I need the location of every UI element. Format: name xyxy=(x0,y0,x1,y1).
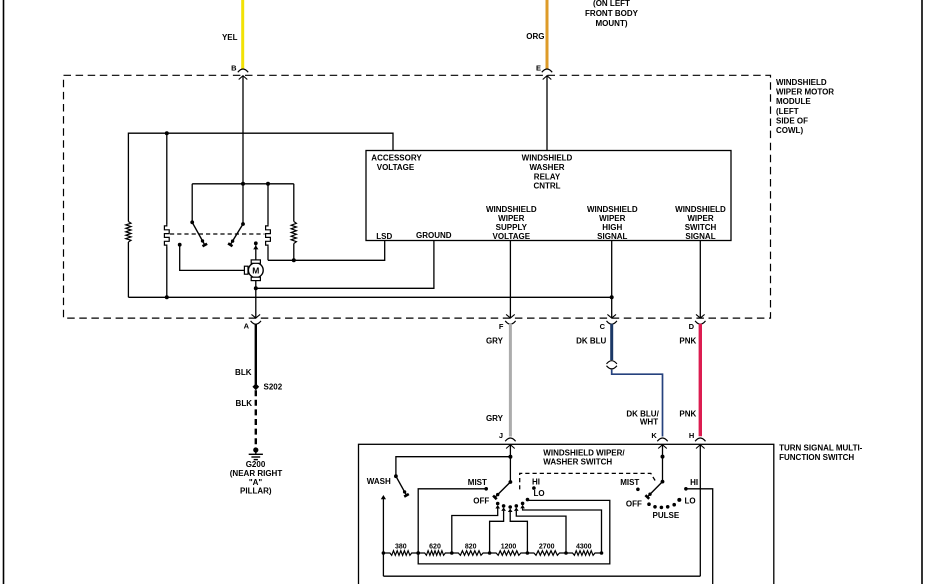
wire to wash switch xyxy=(396,457,511,477)
winding left xyxy=(166,133,168,224)
wire SWITCH SIGNAL pin to terminal D xyxy=(699,241,701,318)
svg-text:OFF: OFF xyxy=(626,499,642,508)
mechanical link dashed to pulse switch xyxy=(520,473,657,489)
svg-text:COWL): COWL) xyxy=(776,126,803,135)
wash switch arm xyxy=(396,476,407,495)
node chain junction xyxy=(450,551,454,555)
svg-text:WIPER: WIPER xyxy=(687,214,713,223)
svg-text:GROUND: GROUND xyxy=(416,231,452,240)
contact MIST xyxy=(484,487,488,491)
svg-text:SIGNAL: SIGNAL xyxy=(685,232,715,241)
contact MIST xyxy=(636,488,640,492)
node chain junction xyxy=(526,551,530,555)
svg-text:WASHER SWITCH: WASHER SWITCH xyxy=(543,458,612,467)
wire J into box xyxy=(509,445,511,482)
svg-text:MIST: MIST xyxy=(468,478,487,487)
svg-text:PILLAR): PILLAR) xyxy=(240,486,272,495)
svg-text:4300: 4300 xyxy=(576,543,592,550)
svg-text:CNTRL: CNTRL xyxy=(533,182,560,191)
wire accessory-voltage rail to relay box xyxy=(128,133,393,221)
svg-text:2700: 2700 xyxy=(539,543,555,550)
svg-text:WINDSHIELD: WINDSHIELD xyxy=(587,205,638,214)
pulse switch pivot xyxy=(661,480,665,484)
svg-text:J: J xyxy=(499,431,503,440)
svg-text:HI: HI xyxy=(690,478,698,487)
wire H down to bottom bus xyxy=(699,445,701,576)
svg-text:S202: S202 xyxy=(264,383,283,392)
svg-text:WIPER: WIPER xyxy=(599,214,625,223)
svg-text:TURN SIGNAL MULTI-: TURN SIGNAL MULTI- xyxy=(779,443,863,452)
contact to motor brush 2 (arrow) xyxy=(254,241,258,245)
wiper switch arm (OFF) xyxy=(495,482,511,497)
windshield wiper motor module dashed outline xyxy=(64,75,771,318)
wash contact arrow xyxy=(381,495,386,499)
svg-text:M: M xyxy=(252,266,259,276)
ground G200 xyxy=(253,447,258,452)
motor M1 xyxy=(248,263,263,278)
wire delay5 to chain end xyxy=(523,508,602,553)
terminal A connector xyxy=(252,314,261,318)
left page border xyxy=(3,0,5,584)
wire SUPPLY VOLTAGE pin to terminal F xyxy=(509,241,511,318)
splice S202 xyxy=(252,383,259,390)
svg-text:MODULE: MODULE xyxy=(776,97,811,106)
node J branch xyxy=(508,455,512,459)
terminal F connector xyxy=(506,314,515,318)
contact LO xyxy=(677,498,681,502)
svg-text:YEL: YEL xyxy=(222,33,238,42)
wire K into box xyxy=(662,445,664,482)
wire from B down to park switch pivot xyxy=(242,76,244,224)
contact HI xyxy=(684,487,688,491)
pulse switch arm (OFF) xyxy=(647,482,662,497)
contact to motor brush 1 xyxy=(178,243,182,247)
svg-text:LO: LO xyxy=(534,489,545,498)
svg-text:820: 820 xyxy=(465,543,477,550)
node chain junction xyxy=(416,551,420,555)
svg-text:WINDSHIELD: WINDSHIELD xyxy=(522,154,573,163)
wire delay3 to 1200/2700 junction xyxy=(510,512,527,553)
pulse position contacts xyxy=(647,502,651,506)
node chain junction xyxy=(600,551,604,555)
wire from E down to relay box xyxy=(546,76,548,151)
bottom bus wire H to wash/chain xyxy=(383,575,700,577)
svg-text:OFF: OFF xyxy=(473,496,489,505)
winding right xyxy=(267,184,269,224)
svg-text:C: C xyxy=(600,322,606,331)
svg-text:GRY: GRY xyxy=(486,337,504,346)
svg-text:PNK: PNK xyxy=(679,337,696,346)
inner supply rail xyxy=(192,183,294,185)
svg-text:FUNCTION SWITCH: FUNCTION SWITCH xyxy=(779,453,854,462)
svg-text:PULSE: PULSE xyxy=(653,511,680,520)
node winding-right top on rail xyxy=(266,182,270,186)
node winding-left / bus xyxy=(165,295,169,299)
svg-text:WINDSHIELD: WINDSHIELD xyxy=(486,205,537,214)
svg-text:K: K xyxy=(651,431,657,440)
svg-text:H: H xyxy=(689,431,694,440)
svg-text:WIPER: WIPER xyxy=(498,214,524,223)
wire to LSD pin xyxy=(268,241,385,261)
wiper relay box xyxy=(366,151,731,241)
svg-text:SUPPLY: SUPPLY xyxy=(496,223,528,232)
terminal C connector xyxy=(607,314,616,318)
turn signal multifunction switch box xyxy=(359,444,774,584)
wire delay4 to 2700/4300 junction xyxy=(516,511,566,553)
contact LO xyxy=(526,498,530,502)
svg-text:F: F xyxy=(499,322,504,331)
svg-text:LSD: LSD xyxy=(376,232,392,241)
svg-text:HIGH: HIGH xyxy=(602,223,622,232)
node bus / high signal wire xyxy=(610,295,614,299)
svg-text:VOLTAGE: VOLTAGE xyxy=(377,163,415,172)
wire BLK dashed S202 to G200 xyxy=(255,390,257,446)
svg-text:380: 380 xyxy=(395,543,407,550)
svg-text:WINDSHIELD: WINDSHIELD xyxy=(776,78,827,87)
svg-text:(LEFT: (LEFT xyxy=(776,107,799,116)
svg-text:WHT: WHT xyxy=(640,418,658,427)
svg-text:HI: HI xyxy=(532,477,540,486)
wire wash contact down to resistor chain & bottom bus xyxy=(382,499,384,576)
svg-text:1200: 1200 xyxy=(501,543,517,550)
svg-text:E: E xyxy=(536,64,541,73)
svg-text:(ON LEFT: (ON LEFT xyxy=(593,0,630,8)
node rail/winding junction xyxy=(165,131,169,135)
svg-text:VOLTAGE: VOLTAGE xyxy=(493,232,531,241)
resistor 4300 xyxy=(566,551,602,556)
svg-text:PNK: PNK xyxy=(679,409,696,418)
svg-text:WASHER: WASHER xyxy=(529,163,564,172)
resistor right xyxy=(293,184,295,222)
svg-text:(NEAR RIGHT: (NEAR RIGHT xyxy=(230,469,283,478)
svg-text:620: 620 xyxy=(429,543,441,550)
in-line connector on blue wire xyxy=(607,361,617,364)
contact HI xyxy=(532,486,536,490)
svg-text:WASH: WASH xyxy=(367,477,391,486)
wire YEL feed (fuse side) xyxy=(241,0,244,69)
svg-text:G200: G200 xyxy=(246,460,266,469)
svg-text:SIGNAL: SIGNAL xyxy=(597,232,627,241)
wire BLK from A to S202 xyxy=(255,324,257,387)
svg-text:MOUNT): MOUNT) xyxy=(596,19,628,28)
wire HI contact right and down xyxy=(686,489,713,584)
svg-text:GRY: GRY xyxy=(486,414,504,423)
node chain junction xyxy=(564,551,568,555)
node chain junction xyxy=(382,551,386,555)
svg-text:D: D xyxy=(689,322,695,331)
svg-text:ACCESSORY: ACCESSORY xyxy=(371,154,422,163)
wire delay1 to 620/820 junction xyxy=(452,509,498,554)
svg-text:BLK: BLK xyxy=(236,399,253,408)
svg-text:WINDSHIELD: WINDSHIELD xyxy=(675,205,726,214)
node resistor-right / LSD wire xyxy=(292,258,296,262)
wire resistor left bottom xyxy=(127,242,129,297)
node K xyxy=(661,455,665,459)
resistor 380 xyxy=(383,551,418,556)
park switch left arm xyxy=(192,222,205,245)
resistor 620 xyxy=(418,551,452,556)
svg-text:DK BLU: DK BLU xyxy=(576,337,606,346)
terminal E connector xyxy=(542,69,552,72)
wire high-signal bus xyxy=(128,296,611,298)
svg-text:WIPER MOTOR: WIPER MOTOR xyxy=(776,88,834,97)
resistor left (wiper motor) xyxy=(126,222,131,243)
terminal K connector xyxy=(657,438,667,441)
svg-text:RELAY: RELAY xyxy=(534,173,561,182)
mechanical link dashed xyxy=(170,233,265,235)
park switch right pivot xyxy=(241,222,245,226)
node B-wire on rail xyxy=(241,182,245,186)
svg-text:SWITCH: SWITCH xyxy=(685,223,717,232)
svg-text:SIDE OF: SIDE OF xyxy=(776,116,808,125)
svg-text:WINDSHIELD WIPER/: WINDSHIELD WIPER/ xyxy=(543,448,625,457)
delay contacts with arrows xyxy=(496,502,500,506)
svg-text:A: A xyxy=(244,321,250,330)
svg-text:ORG: ORG xyxy=(526,32,544,41)
terminal H connector xyxy=(695,438,705,441)
park switch right arm xyxy=(230,224,243,245)
node chain junction xyxy=(488,551,492,555)
node chain start dot xyxy=(416,551,420,555)
wiper switch pivot xyxy=(509,480,513,484)
wire MIST to chain start / LO loop xyxy=(418,489,610,564)
svg-text:FRONT BODY: FRONT BODY xyxy=(585,9,639,18)
wire ORG feed (on left front body mount) xyxy=(546,0,549,69)
wire delay2 to 820/1200 junction xyxy=(490,511,504,553)
wire DK BLU from C xyxy=(610,324,613,360)
svg-text:MIST: MIST xyxy=(620,478,639,487)
svg-text:B: B xyxy=(231,64,237,73)
svg-text:LO: LO xyxy=(685,497,696,506)
terminal D connector xyxy=(696,314,705,318)
wash switch pivot xyxy=(394,474,398,478)
svg-text:BLK: BLK xyxy=(235,368,252,377)
node motor/ground xyxy=(254,286,258,290)
terminal J connector xyxy=(505,438,515,441)
terminal B connector xyxy=(238,69,248,72)
wire GRY F to J xyxy=(509,324,512,437)
wire DK BLU/WHT to K xyxy=(612,370,663,437)
right page border xyxy=(921,0,923,584)
resistor 820 xyxy=(452,551,490,556)
wire GROUND pin xyxy=(256,241,434,289)
park switch left pivot branch xyxy=(191,184,193,223)
wire motor to ground pin / terminal A xyxy=(255,281,257,318)
resistor 1200 xyxy=(490,551,528,556)
resistor 2700 xyxy=(527,551,566,556)
wire HIGH SIGNAL pin to terminal C xyxy=(611,241,613,318)
wire PNK D to H xyxy=(699,324,702,437)
